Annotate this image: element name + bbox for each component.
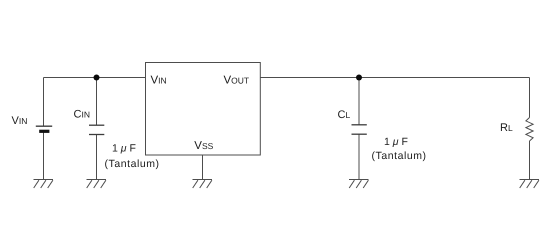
wire: CIN bottom lead to ground: [96, 135, 98, 180]
ground: below RL: [520, 180, 540, 189]
ground: below CIN: [87, 180, 107, 189]
node A junction dot (input): [94, 75, 100, 81]
svg-text:VIN: VIN: [151, 74, 167, 86]
battery source VIN: thick negative plate: [39, 130, 49, 133]
ground: below VSS pin: [193, 180, 213, 189]
capacitor C_L plates: [352, 125, 367, 134]
wire: VIN source bottom lead to ground: [43, 133, 45, 180]
node B junction dot (output): [356, 75, 362, 81]
wire: RL top lead: [529, 78, 531, 118]
svg-text:CIN: CIN: [74, 109, 90, 121]
ground: below CL: [349, 180, 369, 189]
svg-text:1 μ F: 1 μ F: [112, 142, 136, 154]
ground: below VIN source: [34, 180, 54, 189]
wire: VSS lead to ground: [202, 155, 204, 180]
svg-text:VIN: VIN: [12, 115, 28, 127]
wire: VIN source top lead: [43, 78, 45, 126]
wire: RL bottom lead to ground: [529, 141, 531, 180]
svg-text:VSS: VSS: [194, 140, 213, 152]
wire: CL bottom lead to ground: [358, 134, 360, 179]
svg-text:CL: CL: [338, 109, 351, 121]
svg-text:RL: RL: [500, 122, 513, 134]
svg-text:VOUT: VOUT: [224, 74, 250, 86]
wire: CL top lead: [358, 78, 360, 125]
svg-text:1 μ F: 1 μ F: [384, 136, 408, 148]
wire: top-left horizontal from VIN source to IC VIN pin: [44, 77, 146, 79]
resistor R_L zigzag: [526, 118, 533, 142]
wire: top-right horizontal from VOUT pin to RL: [260, 77, 529, 79]
IC U1 regulator body: [146, 63, 261, 156]
capacitor C_IN plates: [89, 125, 104, 134]
svg-text:(Tantalum): (Tantalum): [105, 158, 160, 170]
svg-text:(Tantalum): (Tantalum): [372, 150, 427, 162]
battery source VIN: thin positive plate: [36, 125, 52, 127]
wire: CIN top lead: [96, 78, 98, 126]
